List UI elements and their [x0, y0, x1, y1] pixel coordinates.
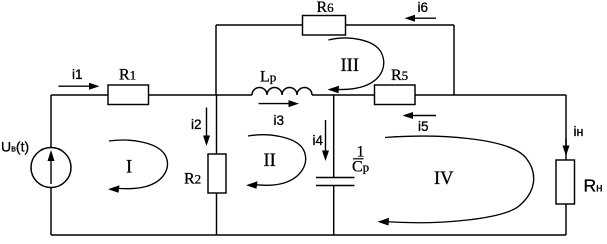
wire main rail left of R1 — [51, 94, 108, 96]
loop arrow I — [108, 140, 167, 193]
current arrow i1 — [59, 83, 100, 90]
wire left vertical bottom segment — [50, 188, 52, 236]
wire bottom rail — [51, 234, 566, 236]
voltage source arrow — [48, 150, 55, 184]
wire R2 branch upper — [216, 95, 218, 154]
resistor R5 — [375, 85, 416, 105]
wire main rail R5 to right corner — [415, 94, 566, 96]
svg-text:i2: i2 — [191, 117, 202, 132]
loop arrow IV — [378, 136, 534, 225]
svg-text:Uв(t): Uв(t) — [1, 139, 29, 155]
svg-text:i4: i4 — [313, 133, 324, 148]
wire R6 branch top right — [346, 24, 455, 26]
svg-text:i1: i1 — [72, 67, 83, 82]
wire R2 branch lower — [216, 193, 218, 235]
wire right vertical bottom segment — [565, 204, 567, 235]
resistor R6 — [303, 16, 346, 36]
svg-text:IV: IV — [434, 169, 454, 189]
current arrow iH — [563, 138, 570, 156]
label 1/Cp — [352, 144, 369, 176]
wire capacitor branch lower — [333, 186, 335, 236]
wire capacitor branch upper — [333, 95, 335, 178]
svg-text:R5: R5 — [391, 67, 408, 84]
svg-text:iн: iн — [574, 124, 584, 139]
resistor R2 — [208, 154, 226, 193]
inductor Lp — [252, 88, 312, 96]
wire right vertical top segment — [565, 95, 567, 160]
svg-text:i5: i5 — [418, 119, 429, 134]
voltage source UB circle — [31, 148, 71, 188]
svg-text:i3: i3 — [274, 113, 285, 128]
current arrow i6 — [405, 15, 437, 22]
current arrow i3 — [259, 100, 300, 107]
current arrow i2 — [203, 108, 210, 147]
svg-text:R2: R2 — [184, 171, 201, 188]
svg-text:Cp: Cp — [352, 159, 369, 176]
svg-text:R6: R6 — [317, 0, 335, 16]
loop arrow III — [328, 38, 384, 93]
current arrow i5 — [403, 112, 437, 119]
current arrow i4 — [322, 120, 329, 161]
wire R6 branch top left — [216, 24, 303, 26]
svg-text:II: II — [264, 151, 276, 171]
wire main rail R1 to Lp — [149, 94, 253, 96]
wire R6 branch right vertical — [453, 25, 455, 95]
svg-text:i6: i6 — [418, 0, 429, 15]
svg-text:III: III — [341, 56, 359, 76]
capacitor Cp plates — [316, 178, 355, 186]
svg-text:I: I — [126, 158, 132, 178]
loop arrow II — [246, 135, 306, 189]
resistor RH — [556, 160, 575, 204]
resistor R1 — [108, 85, 149, 105]
wire left vertical top segment — [50, 95, 52, 148]
svg-text:Lp: Lp — [260, 69, 276, 86]
svg-text:R1: R1 — [119, 67, 136, 84]
wire R6 branch left vertical — [215, 25, 217, 95]
wire main rail Lp to R5 — [312, 94, 375, 96]
